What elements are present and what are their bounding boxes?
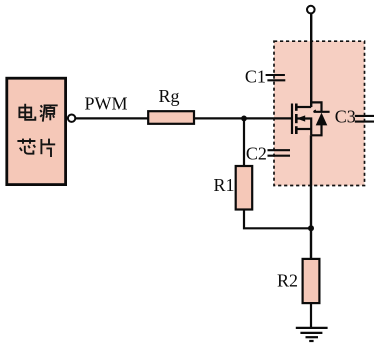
wire PWM output to gate node xyxy=(76,117,245,119)
wire source to R2 xyxy=(310,135,312,259)
wire R2 to ground xyxy=(310,303,312,328)
svg-text:C2: C2 xyxy=(246,144,267,164)
terminal node PWM (open circle) xyxy=(68,115,75,122)
body arrow (points to channel) xyxy=(297,115,306,121)
label 芯 (glyph strokes) xyxy=(17,138,35,153)
channel segment body xyxy=(295,114,298,123)
resistor R1 xyxy=(236,166,253,210)
capacitor C2 symbol xyxy=(268,150,291,156)
svg-text:C3: C3 xyxy=(335,107,356,127)
svg-text:Rg: Rg xyxy=(158,86,179,106)
diode cathode bar xyxy=(314,111,330,112)
power chip box U1 电源芯片 xyxy=(7,78,66,184)
diode bottom wire to source corner xyxy=(311,125,321,135)
label 电 (glyph strokes) xyxy=(19,104,35,120)
drain stub xyxy=(296,106,311,108)
channel segment source side xyxy=(295,126,298,134)
body diode D1 xyxy=(311,102,329,135)
resistor Rg xyxy=(148,111,194,124)
resistor R2 xyxy=(303,259,320,303)
junction gate node xyxy=(241,116,247,122)
svg-text:C1: C1 xyxy=(245,67,266,87)
label 片 (glyph strokes) xyxy=(41,139,55,157)
wire gate node down to R1 xyxy=(243,118,245,166)
svg-text:R2: R2 xyxy=(277,271,298,291)
svg-text:R1: R1 xyxy=(213,175,234,195)
wire gate node to MOSFET gate xyxy=(244,117,292,119)
channel segment drain side xyxy=(295,104,298,111)
ground symbol xyxy=(296,328,328,341)
wire drain terminal to MOSFET drain xyxy=(310,13,312,107)
wire R1 bottom to source node xyxy=(244,210,311,229)
transistor Q1 N-MOSFET xyxy=(292,104,311,136)
diode top branch wire xyxy=(311,102,321,111)
capacitor C1 symbol xyxy=(266,75,286,80)
terminal node drain (open circle, top) xyxy=(307,6,315,14)
svg-text:PWM: PWM xyxy=(84,94,127,114)
source stub xyxy=(296,128,311,130)
junction source node xyxy=(308,225,314,231)
capacitor C3 symbol xyxy=(355,116,374,122)
gate bar xyxy=(291,104,293,135)
body wire and down to source corner xyxy=(296,119,311,136)
diode triangle xyxy=(316,113,328,126)
mosfet module dashed box xyxy=(274,41,365,185)
label 源 (glyph strokes) xyxy=(40,105,58,121)
